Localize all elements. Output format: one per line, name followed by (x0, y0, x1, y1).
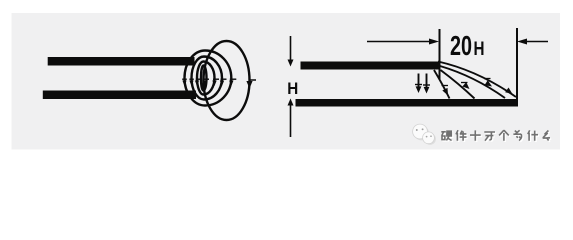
fringing arc a1 (434, 70, 451, 99)
field line loop L2 (197, 62, 215, 95)
fringing arc a3 (440, 66, 505, 98)
bottom plane (right figure) (296, 99, 519, 107)
watermark icon bubbles (413, 124, 435, 144)
field direction arrow on L3 right arc (220, 79, 227, 86)
field line loop L3 (192, 57, 222, 100)
svg-text:H: H (474, 39, 485, 60)
field line loop L1 (innermost D-loop) (201, 66, 207, 91)
field line loop E5 (outer fringing loop) (204, 41, 250, 120)
field direction arrow on outer loop left side (203, 79, 209, 86)
20H dimension left arrow (367, 39, 439, 45)
page background (0, 0, 573, 160)
watermark icon shadow (414, 126, 436, 145)
extension line at trace end (439, 29, 441, 79)
field direction arrow on L4 right arc (229, 79, 236, 86)
svg-text:20: 20 (450, 30, 472, 61)
H dimension lower arrow (288, 99, 294, 138)
top trace (right figure) (301, 62, 441, 70)
field direction arrow on outer loop E5 right side (246, 80, 256, 89)
fringing arc a2 (441, 70, 475, 99)
scanned figure grey background (12, 13, 561, 150)
field direction arrow on L3 left line (189, 79, 193, 86)
fringing arc a4 (outermost) (438, 62, 516, 98)
H dimension upper arrow (288, 36, 294, 67)
bottom plate (left capacitor) (43, 91, 196, 100)
field direction arrow on L2 right arc (212, 79, 219, 86)
field direction arrow on L2 left line (195, 79, 201, 86)
top plate (left capacitor) (48, 57, 195, 66)
svg-text:H: H (287, 79, 298, 98)
extension line at plane end (516, 28, 518, 99)
vertical field line v2 (right figure) (423, 74, 430, 94)
field direction arrow on L4 left line (182, 79, 187, 86)
20H dimension right arrow (517, 39, 548, 45)
field line loop L4 (185, 51, 232, 106)
vertical field line v1 (right figure) (415, 74, 422, 94)
